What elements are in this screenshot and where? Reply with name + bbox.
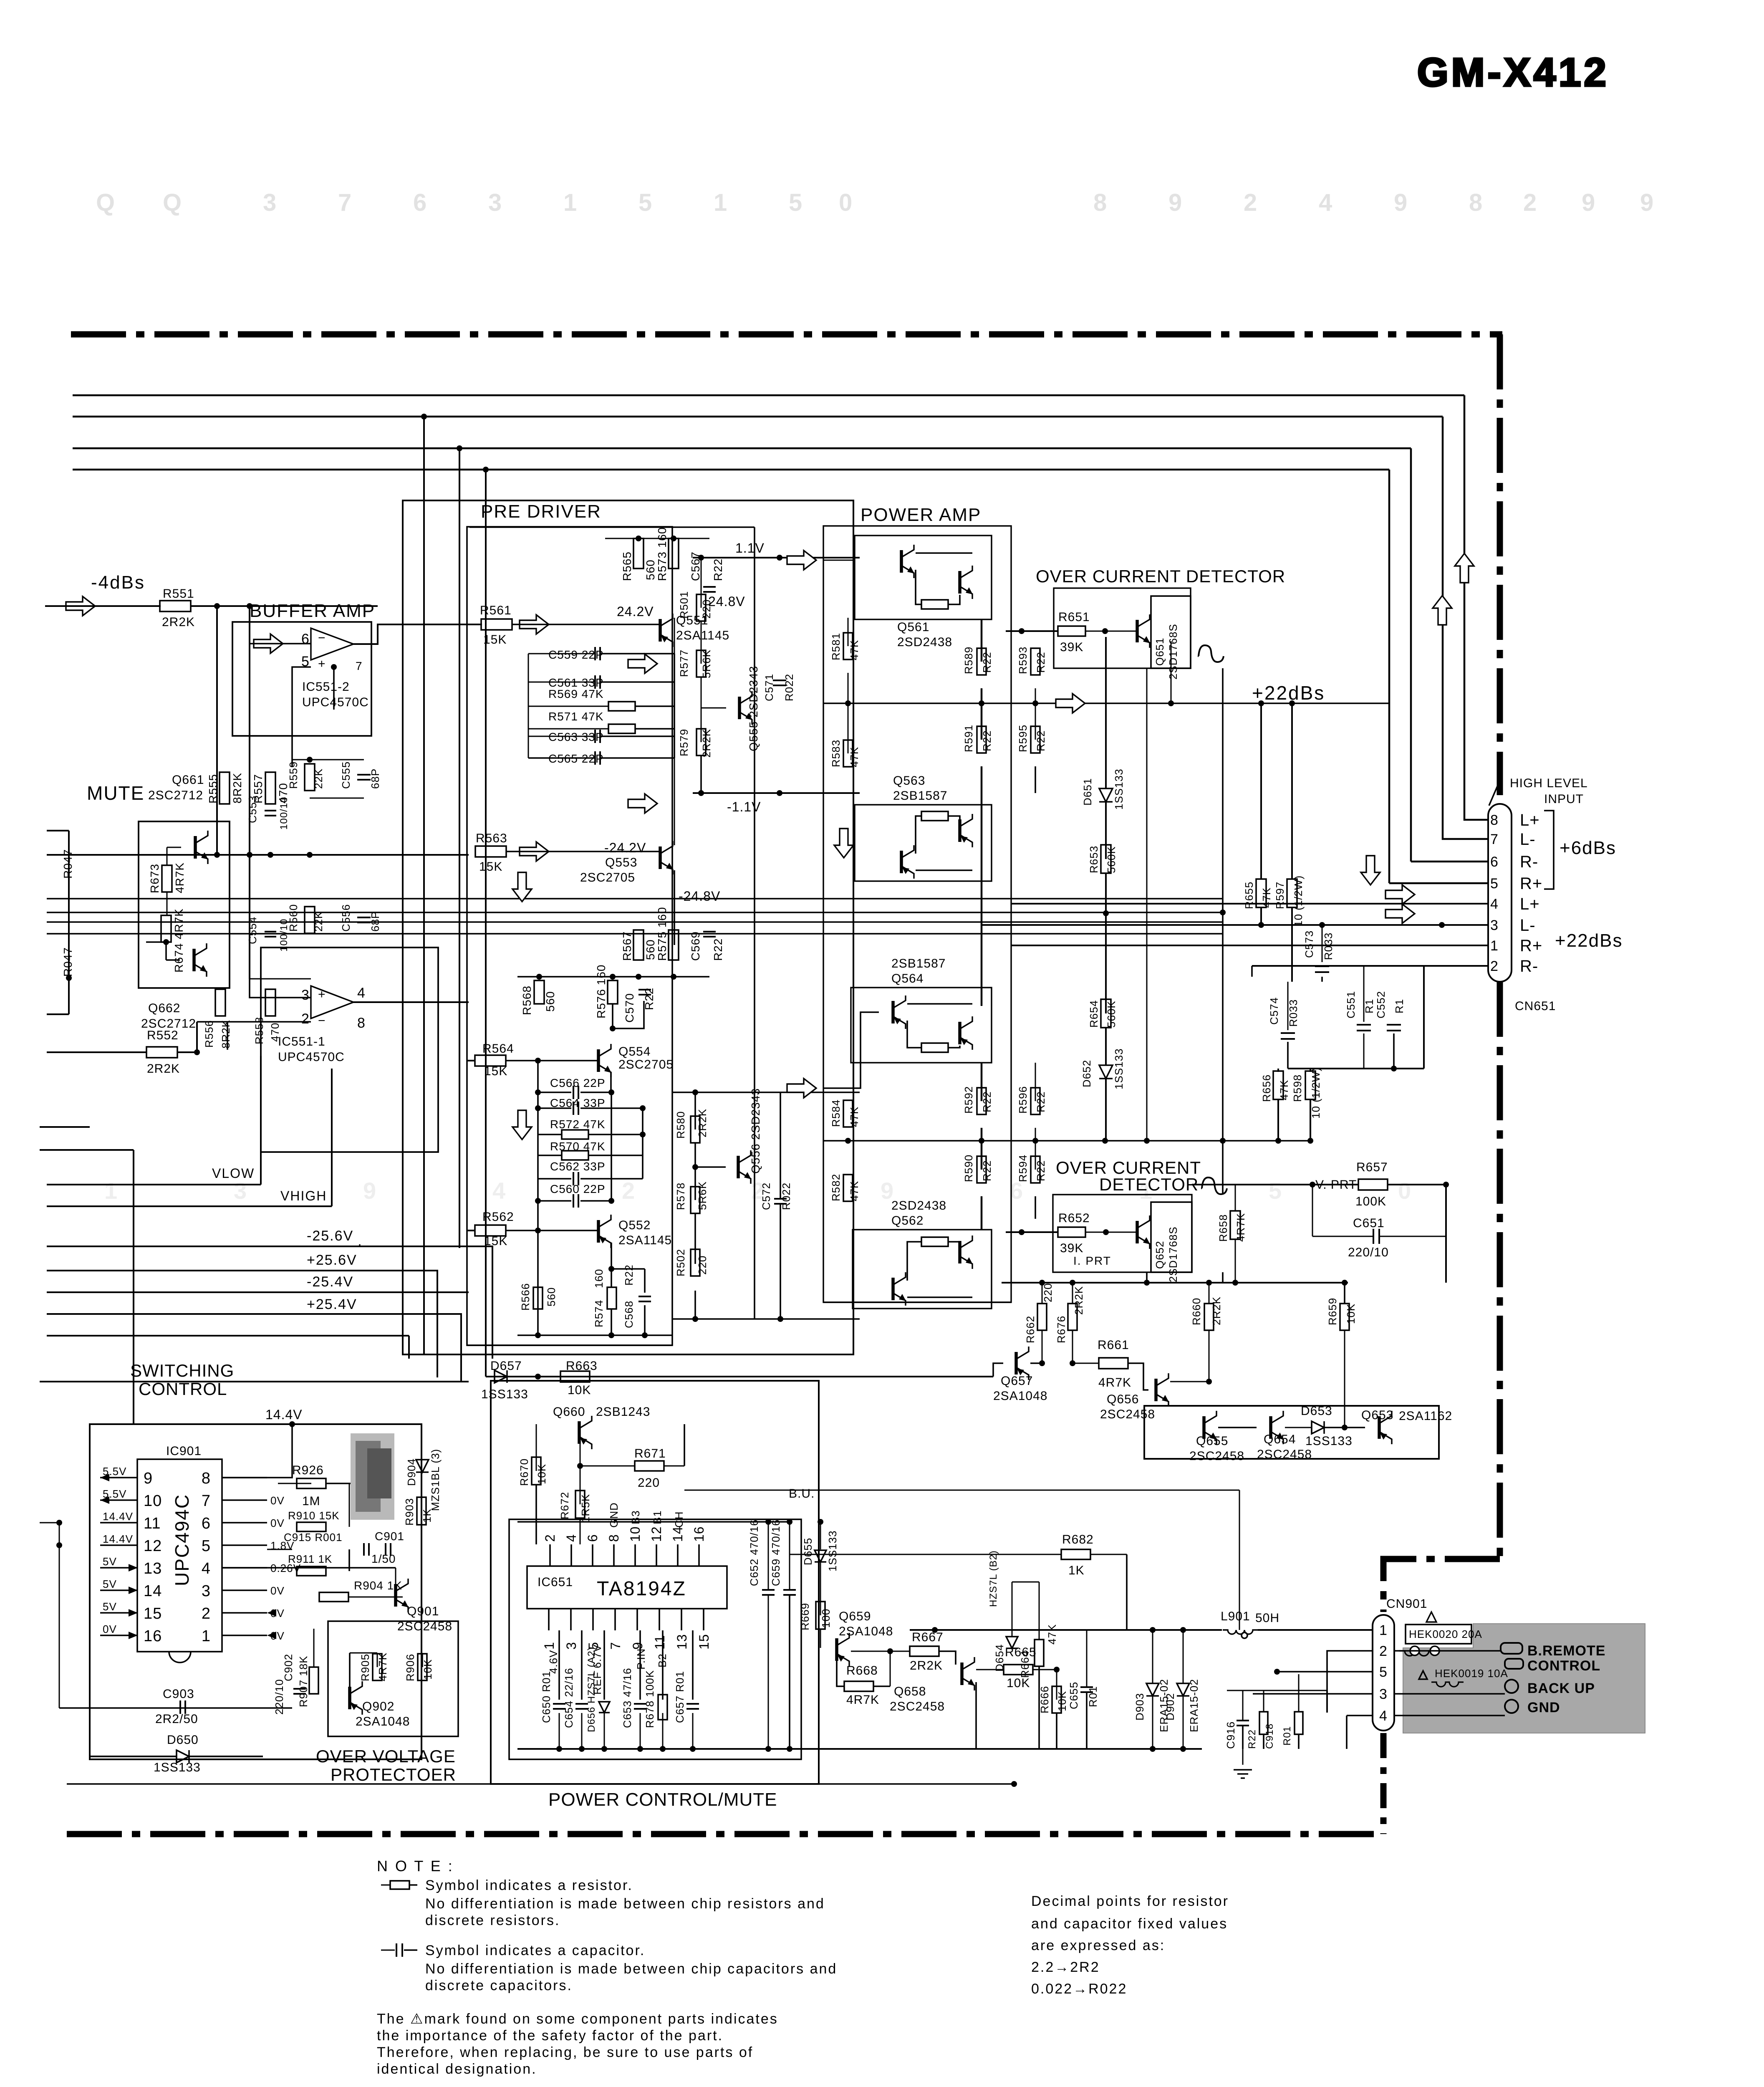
switching control box — [90, 1424, 421, 1759]
wire Q657 collector/emitter — [1042, 1330, 1043, 1363]
wire mid rail A — [47, 898, 1223, 899]
svg-text:MZS1BL (3): MZS1BL (3) — [429, 1449, 442, 1511]
wire bottom rail power control — [517, 1748, 1202, 1750]
svg-text:24.2V: 24.2V — [617, 604, 654, 619]
svg-text:R678 100K: R678 100K — [644, 1670, 656, 1728]
svg-text:2R2K: 2R2K — [696, 1109, 709, 1137]
svg-text:R654: R654 — [1088, 1000, 1100, 1028]
wires Q660 area — [580, 1443, 581, 1504]
svg-text:Q561: Q561 — [897, 620, 929, 634]
wire OCD2 right vertical — [1222, 1272, 1224, 1283]
down arrow ch2 pre — [512, 1110, 532, 1140]
svg-text:47K: 47K — [848, 1107, 861, 1127]
svg-text:R593: R593 — [1017, 647, 1029, 674]
svg-text:3: 3 — [564, 1642, 579, 1650]
wires Q659/Q658 cluster — [851, 1651, 910, 1652]
wire top rail power control — [517, 1521, 790, 1523]
border frame dash-dot top — [71, 331, 1502, 338]
svg-text:Q562: Q562 — [891, 1214, 924, 1228]
svg-text:R672: R672 — [558, 1492, 571, 1519]
svg-text:+: + — [318, 657, 326, 671]
wire R682 — [790, 1554, 1061, 1555]
svg-text:Q662: Q662 — [148, 1001, 180, 1015]
pre driver outer box — [403, 500, 853, 1354]
svg-text:C659 470/16: C659 470/16 — [770, 1519, 782, 1586]
svg-text:BUFFER AMP: BUFFER AMP — [250, 601, 375, 621]
svg-text:100/10: 100/10 — [278, 797, 290, 830]
svg-text:R651: R651 — [1058, 610, 1090, 624]
svg-text:9: 9 — [1640, 189, 1654, 216]
svg-text:TA8194Z: TA8194Z — [597, 1578, 686, 1600]
wires cap columns — [559, 1713, 560, 1749]
inner box Q651 — [1151, 596, 1191, 668]
svg-text:R556: R556 — [203, 1020, 215, 1048]
svg-text:6: 6 — [301, 631, 310, 647]
svg-text:R656: R656 — [1260, 1074, 1273, 1102]
svg-text:3: 3 — [202, 1582, 211, 1600]
output transistor block Q563 — [855, 805, 992, 881]
long vertical feedback line x1164 — [485, 470, 487, 1359]
wire R651 node — [823, 631, 1058, 632]
svg-text:R594: R594 — [1017, 1155, 1029, 1182]
svg-text:0V: 0V — [270, 1494, 285, 1507]
svg-text:D903: D903 — [1133, 1693, 1146, 1721]
node R674 top — [163, 939, 169, 945]
svg-text:-25.4V: -25.4V — [307, 1274, 353, 1290]
svg-text:5R6K: 5R6K — [700, 649, 713, 678]
svg-text:Q661: Q661 — [172, 773, 204, 787]
svg-text:R569 47K: R569 47K — [548, 687, 604, 700]
svg-text:560: 560 — [644, 559, 657, 580]
svg-text:10 (1/2W): 10 (1/2W) — [1310, 1067, 1322, 1119]
wire pin1 line — [1011, 945, 1489, 946]
svg-text:IC551-1: IC551-1 — [278, 1035, 326, 1049]
wire R562 line — [467, 1230, 475, 1231]
safety mark triangle — [1426, 1612, 1436, 1622]
svg-text:Q902: Q902 — [362, 1700, 394, 1713]
svg-text:15K: 15K — [479, 860, 502, 874]
svg-text:HEK0019 10A: HEK0019 10A — [1435, 1667, 1508, 1680]
svg-text:C570: C570 — [623, 993, 636, 1023]
svg-text:Q659: Q659 — [839, 1609, 871, 1623]
svg-text:24.8V: 24.8V — [708, 594, 745, 609]
svg-text:2SB1587: 2SB1587 — [891, 957, 946, 970]
svg-text:D902: D902 — [1164, 1693, 1176, 1721]
svg-text:8: 8 — [606, 1534, 621, 1542]
svg-text:discrete capacitors.: discrete capacitors. — [425, 1978, 573, 1994]
svg-text:R022: R022 — [783, 674, 795, 701]
wire ch1 output into power amp — [816, 560, 860, 561]
svg-text:9: 9 — [363, 1177, 376, 1204]
arrow after R561 — [520, 615, 549, 634]
svg-text:N O T E :: N O T E : — [377, 1857, 454, 1875]
svg-text:10K: 10K — [568, 1383, 591, 1397]
svg-text:D655: D655 — [802, 1538, 814, 1565]
wire op-amp2 inverting — [227, 1022, 311, 1050]
wire pin5 line — [1277, 1671, 1373, 1673]
svg-text:0.022→R022: 0.022→R022 — [1031, 1981, 1127, 1997]
power amp outer box — [823, 526, 1011, 1302]
svg-text:560: 560 — [545, 1287, 558, 1306]
svg-text:2: 2 — [202, 1605, 211, 1622]
svg-text:D656 HZS7L (A2): D656 HZS7L (A2) — [586, 1647, 597, 1732]
svg-text:R563: R563 — [476, 831, 507, 845]
transistor Q553 2SC2705 — [660, 841, 673, 874]
svg-text:2SC2458: 2SC2458 — [1257, 1448, 1312, 1461]
svg-text:BACK UP: BACK UP — [1527, 1680, 1595, 1696]
note resistor symbol — [381, 1885, 390, 1886]
svg-text:C651: C651 — [1353, 1216, 1385, 1230]
svg-text:8: 8 — [202, 1470, 211, 1487]
input arrow — [66, 596, 95, 616]
svg-text:R580: R580 — [674, 1111, 687, 1139]
svg-text:C554: C554 — [246, 917, 259, 944]
svg-text:R575 160: R575 160 — [656, 907, 669, 961]
svg-text:39K: 39K — [1060, 640, 1083, 654]
svg-text:13: 13 — [674, 1634, 689, 1650]
bus line 4 — [73, 469, 1389, 471]
wire rail y3073 — [1002, 1282, 1348, 1284]
wire mid rail D — [47, 933, 1223, 934]
svg-text:-1.1V: -1.1V — [727, 799, 761, 814]
svg-text:1: 1 — [202, 1627, 211, 1645]
wire C651 line — [1312, 1236, 1373, 1237]
svg-text:47K: 47K — [848, 1181, 861, 1201]
svg-text:R+: R+ — [1520, 874, 1542, 893]
wire left col stub1 — [40, 1126, 90, 1128]
svg-text:POWER AMP: POWER AMP — [861, 505, 981, 525]
svg-text:2SA1048: 2SA1048 — [993, 1389, 1047, 1403]
wire resistor top leads — [1042, 1283, 1043, 1304]
callout line to connector — [1489, 781, 1500, 806]
transistor Q551 2SA1145 — [660, 614, 673, 647]
wire R658 column — [1235, 1185, 1236, 1210]
svg-text:5: 5 — [202, 1537, 211, 1555]
power control inner box — [509, 1519, 801, 1759]
resistor R558 470 (vertical) — [265, 989, 275, 1016]
svg-text:R595: R595 — [1017, 725, 1029, 752]
wire +22dBs rail ch2 — [823, 1140, 1310, 1141]
svg-text:D653: D653 — [1301, 1404, 1332, 1418]
svg-text:Q901: Q901 — [407, 1604, 439, 1618]
svg-text:6: 6 — [413, 189, 427, 216]
pre driver secondary frame — [754, 527, 755, 1319]
svg-text:C653 47/16: C653 47/16 — [621, 1668, 633, 1728]
svg-text:68P: 68P — [369, 768, 381, 789]
svg-text:D904: D904 — [405, 1458, 418, 1486]
svg-text:Q556 2SD2343: Q556 2SD2343 — [749, 1088, 762, 1174]
ground symbol — [1242, 1749, 1244, 1765]
wire long rail to switching — [40, 1381, 469, 1382]
svg-text:R664: R664 — [1019, 1650, 1031, 1678]
resistor R556 8R2K (vertical) — [215, 989, 225, 1016]
svg-text:D650: D650 — [167, 1733, 199, 1747]
wires C652/C659 columns — [768, 1522, 769, 1590]
svg-text:R671: R671 — [634, 1447, 666, 1460]
svg-text:560: 560 — [644, 939, 657, 960]
svg-text:1: 1 — [542, 1642, 557, 1650]
wires C916 cluster — [1242, 1690, 1244, 1721]
svg-text:4: 4 — [357, 985, 366, 1001]
svg-text:50H: 50H — [1255, 1611, 1279, 1625]
svg-text:9: 9 — [144, 1470, 153, 1487]
svg-text:10 (1/2W): 10 (1/2W) — [1292, 875, 1305, 927]
svg-text:+22dBs: +22dBs — [1252, 682, 1325, 704]
svg-text:PRE DRIVER: PRE DRIVER — [481, 501, 601, 522]
svg-text:R572 47K: R572 47K — [550, 1118, 606, 1131]
svg-text:IC901: IC901 — [166, 1444, 202, 1458]
svg-text:R666: R666 — [1038, 1686, 1051, 1713]
wire mute internals — [167, 847, 168, 865]
svg-text:2: 2 — [1244, 189, 1257, 216]
transistor Q651 2SD1768S — [1137, 614, 1150, 648]
svg-text:ERA15-02: ERA15-02 — [1188, 1679, 1200, 1732]
svg-text:P.IN: P.IN — [635, 1648, 647, 1670]
svg-text:+: + — [318, 988, 326, 1001]
svg-text:No differentiation is made bet: No differentiation is made between chip … — [425, 1961, 837, 1977]
svg-text:1SS133: 1SS133 — [481, 1387, 528, 1401]
svg-text:R911 1K: R911 1K — [288, 1553, 332, 1565]
svg-text:Therefore, when replacing, be: Therefore, when replacing, be sure to us… — [377, 2044, 753, 2060]
svg-text:220: 220 — [700, 599, 713, 619]
svg-text:12: 12 — [649, 1526, 664, 1542]
wire joint rail y2560 — [1288, 1068, 1424, 1069]
svg-text:47K: 47K — [1260, 887, 1273, 908]
svg-text:5: 5 — [1490, 876, 1499, 892]
wires D903/D902 — [1152, 1630, 1153, 1683]
svg-text:8: 8 — [1469, 189, 1483, 216]
wire B.U. rail — [684, 1490, 1239, 1491]
arrow down right column — [1361, 856, 1380, 885]
svg-text:22K: 22K — [312, 768, 325, 789]
svg-text:2R2K: 2R2K — [700, 729, 713, 758]
svg-text:1.1V: 1.1V — [735, 541, 765, 556]
svg-text:B.U.: B.U. — [789, 1487, 815, 1501]
wire +22dBs rail ch1 — [823, 702, 1389, 704]
diode D902 ERA15-02 (vertical) — [1177, 1683, 1189, 1696]
svg-text:5V: 5V — [103, 1555, 117, 1568]
svg-text:R667: R667 — [912, 1630, 944, 1644]
svg-text:2SA1145: 2SA1145 — [618, 1233, 672, 1247]
arrow mid ch1 a — [628, 654, 657, 673]
long vertical feedback line x1016 — [423, 417, 425, 1354]
svg-text:R562: R562 — [482, 1210, 514, 1224]
op-amp IC551-1 — [311, 986, 353, 1018]
TA8194Z IC body — [527, 1566, 727, 1609]
svg-text:5: 5 — [1269, 1177, 1282, 1204]
wire pre ch1 bottom rail — [605, 976, 709, 978]
wire pre ch2 top rail — [517, 976, 709, 978]
svg-text:4: 4 — [1379, 1708, 1388, 1724]
TA8194Z bottom pins — [548, 1609, 550, 1630]
svg-text:R22: R22 — [1035, 730, 1047, 751]
wire mid rail B — [47, 912, 1223, 913]
svg-text:HEK0020 20A: HEK0020 20A — [1409, 1628, 1482, 1640]
svg-text:5: 5 — [638, 189, 652, 216]
wire R563 to Q553 — [506, 851, 660, 852]
svg-text:4: 4 — [492, 1177, 506, 1204]
svg-text:R22: R22 — [981, 1091, 993, 1112]
svg-text:R596: R596 — [1017, 1086, 1029, 1114]
svg-text:R903: R903 — [403, 1498, 416, 1526]
wire left col stub2 — [40, 1149, 134, 1151]
svg-text:R597: R597 — [1274, 882, 1286, 909]
fuse symbol 1 — [1399, 1651, 1435, 1656]
svg-text:R926: R926 — [292, 1463, 324, 1477]
svg-text:2SA1162: 2SA1162 — [1399, 1409, 1452, 1423]
svg-text:C560 22P: C560 22P — [550, 1182, 606, 1195]
svg-text:3: 3 — [301, 987, 310, 1003]
wire op-amp2 input rail — [250, 978, 311, 980]
svg-text:1SS133: 1SS133 — [1113, 1048, 1125, 1089]
svg-text:2SD1768S: 2SD1768S — [1167, 624, 1179, 680]
svg-text:R22: R22 — [712, 558, 724, 581]
diode D903 ERA15-02 (vertical) — [1146, 1683, 1159, 1696]
svg-text:R579: R579 — [678, 729, 690, 756]
svg-text:C916: C916 — [1224, 1721, 1237, 1749]
svg-text:2: 2 — [622, 1177, 635, 1204]
fuse box HEK0020 20A — [1406, 1625, 1471, 1644]
svg-text:C572: C572 — [760, 1182, 772, 1210]
svg-text:R670: R670 — [518, 1458, 530, 1486]
svg-text:R551: R551 — [163, 587, 194, 601]
wire pre ch2 bottom rail — [517, 1334, 672, 1336]
bus line 2 (to CN651 pin 7) — [73, 416, 1443, 418]
transistor Q901 2SC2458 — [396, 1579, 409, 1612]
svg-text:0V: 0V — [270, 1517, 285, 1529]
svg-text:-24.2V: -24.2V — [604, 840, 646, 855]
wire lower long rail — [47, 1335, 409, 1337]
svg-text:4R7K: 4R7K — [846, 1693, 879, 1707]
svg-text:Q658: Q658 — [894, 1685, 926, 1698]
svg-text:L+: L+ — [1520, 811, 1540, 829]
arrows to speaker lines — [1385, 885, 1415, 904]
svg-text:UPC494C: UPC494C — [171, 1494, 193, 1586]
svg-text:I. PRT: I. PRT — [1073, 1254, 1111, 1267]
svg-text:15K: 15K — [484, 1234, 507, 1248]
svg-text:Q657: Q657 — [1001, 1374, 1033, 1388]
svg-text:OVER VOLTAGE: OVER VOLTAGE — [316, 1746, 456, 1766]
svg-text:CN901: CN901 — [1386, 1597, 1427, 1611]
inner box Q652 — [1151, 1202, 1192, 1272]
diode D904 MZS1BL(3) (vertical) — [416, 1460, 429, 1472]
svg-text:2SB1587: 2SB1587 — [893, 789, 947, 803]
wire Q564/Q562 column verticals — [848, 1063, 848, 1114]
svg-text:C556: C556 — [340, 904, 352, 932]
svg-text:1R5K: 1R5K — [579, 1494, 592, 1523]
svg-text:220: 220 — [696, 1256, 709, 1275]
svg-text:10K: 10K — [1056, 1691, 1068, 1711]
svg-text:2SA1145: 2SA1145 — [676, 629, 729, 642]
wire Q656 links — [1209, 1330, 1210, 1382]
transistor Q552 2SA1145 — [598, 1215, 611, 1248]
wire R652 node — [1006, 1231, 1058, 1233]
wire +25.6V rail — [47, 1270, 357, 1271]
wire pre ch1 top rail — [605, 538, 709, 539]
svg-text:2SA1048: 2SA1048 — [356, 1715, 410, 1728]
transistor Q902 2SA1048 — [350, 1681, 362, 1715]
svg-text:R662: R662 — [1024, 1316, 1037, 1343]
grey relay block — [351, 1433, 394, 1520]
svg-text:9: 9 — [1582, 189, 1595, 216]
svg-text:1: 1 — [563, 189, 577, 216]
wire OCD2 to V.PRT rail — [1235, 1184, 1312, 1185]
svg-text:CN651: CN651 — [1515, 999, 1556, 1013]
svg-text:14: 14 — [670, 1526, 685, 1542]
svg-text:R658: R658 — [1217, 1214, 1229, 1242]
svg-text:Q654: Q654 — [1264, 1433, 1296, 1446]
svg-text:14: 14 — [144, 1582, 162, 1600]
svg-text:Q554: Q554 — [618, 1045, 651, 1059]
transistor Q656 2SC2458 — [1156, 1373, 1169, 1407]
svg-text:R574: R574 — [593, 1300, 605, 1327]
svg-text:3: 3 — [234, 1177, 247, 1204]
svg-text:R905: R905 — [359, 1654, 371, 1681]
svg-text:HZS7L (B2): HZS7L (B2) — [988, 1550, 999, 1607]
svg-text:R655: R655 — [1243, 882, 1255, 909]
svg-text:R564: R564 — [482, 1042, 514, 1056]
wire D657 line to Q657 — [486, 1376, 993, 1377]
svg-text:D654: D654 — [993, 1644, 1006, 1672]
svg-text:R047: R047 — [61, 849, 74, 879]
svg-text:R673: R673 — [148, 864, 161, 893]
wire pin2 elbow — [1327, 1651, 1373, 1713]
svg-text:IC551-2: IC551-2 — [302, 680, 350, 694]
svg-text:8: 8 — [1490, 812, 1499, 828]
wire into op-amp pin6 — [250, 643, 311, 644]
transistor Q653 2SA1162 — [1379, 1411, 1392, 1444]
svg-text:1K: 1K — [1068, 1564, 1085, 1577]
wire R656/R598 columns — [1278, 1069, 1279, 1071]
svg-text:R033: R033 — [1287, 999, 1300, 1027]
wire op-amp output — [353, 624, 482, 644]
wire C573 col — [1322, 925, 1323, 962]
svg-text:and capacitor fixed values: and capacitor fixed values — [1031, 1916, 1228, 1932]
svg-text:10: 10 — [628, 1526, 643, 1542]
svg-text:+25.4V: +25.4V — [307, 1296, 357, 1312]
svg-text:11: 11 — [652, 1635, 667, 1650]
output transistor block Q562 — [853, 1230, 992, 1309]
svg-text:UPC4570C: UPC4570C — [302, 695, 369, 709]
wire mid rail C — [47, 921, 1223, 922]
svg-text:Q655: Q655 — [1196, 1434, 1228, 1448]
wire VHIGH — [47, 1205, 332, 1207]
svg-text:-24.8V: -24.8V — [679, 889, 720, 904]
svg-text:Q652: Q652 — [1153, 1241, 1166, 1269]
svg-text:47K: 47K — [1278, 1080, 1290, 1100]
wire R576/C570 join — [612, 1004, 613, 1028]
svg-text:R047: R047 — [61, 947, 74, 977]
svg-text:R-: R- — [1520, 957, 1538, 975]
svg-text:100K: 100K — [1355, 1195, 1386, 1208]
svg-text:2SC2705: 2SC2705 — [580, 871, 635, 884]
svg-text:R661: R661 — [1098, 1338, 1129, 1352]
wire V.PRT line — [1192, 1184, 1358, 1185]
svg-text:6: 6 — [202, 1515, 211, 1532]
svg-text:14.4V: 14.4V — [103, 1533, 133, 1545]
svg-text:C551: C551 — [1345, 991, 1357, 1018]
wire +25.4V rail — [47, 1313, 380, 1315]
wire R661 to Q656 — [1073, 1363, 1099, 1364]
svg-text:CONTROL: CONTROL — [1527, 1658, 1600, 1674]
svg-text:6: 6 — [1490, 854, 1499, 870]
svg-text:4: 4 — [564, 1534, 579, 1542]
svg-text:6: 6 — [585, 1534, 600, 1542]
svg-text:R22: R22 — [1247, 1729, 1258, 1749]
svg-text:L-: L- — [1520, 916, 1536, 935]
svg-text:C568: C568 — [623, 1301, 635, 1328]
svg-text:2SC2712: 2SC2712 — [148, 788, 203, 802]
